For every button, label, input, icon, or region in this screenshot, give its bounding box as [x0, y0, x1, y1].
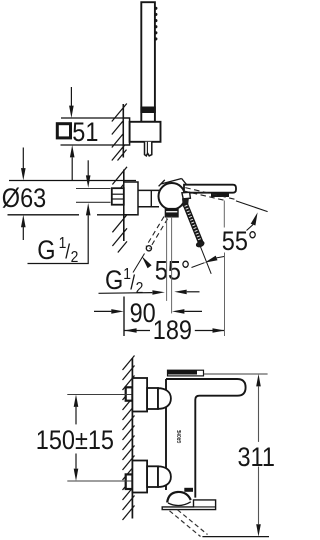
outlet extension lines: [167, 217, 172, 314]
lever base quad: [182, 192, 191, 199]
handle dome: [167, 492, 191, 503]
wall hatch top: [112, 104, 127, 161]
dim 189 text: [153, 315, 192, 345]
thread G12 second left arrow: [174, 290, 199, 295]
dim square51 extension lines: [61, 118, 124, 145]
dim dia63 up arrow: [21, 215, 26, 240]
svg-text:311: 311: [238, 443, 275, 473]
dim square51 down arrow: [69, 87, 74, 118]
thread G12 second text: [105, 265, 143, 297]
lever end cap: [196, 240, 205, 248]
body circle: [159, 183, 186, 210]
dim 150 text: [36, 425, 114, 455]
hose stem: [145, 142, 152, 156]
dim 150 down arrow: [74, 454, 79, 482]
union2 ball: [158, 466, 171, 487]
lever arm: [183, 204, 203, 244]
handle band bottom view: [184, 488, 193, 492]
body and spout bottom view: [166, 379, 246, 498]
dim 311 line and arrows: [256, 374, 261, 537]
handle swing dashed: [146, 217, 168, 251]
holder block: [130, 122, 161, 142]
shank: [138, 190, 159, 206]
wall hatch middle: [112, 167, 127, 253]
spray nozzles: [154, 7, 157, 41]
wall hatch bottom: [123, 356, 135, 521]
handle swing right arc arrow: [192, 256, 225, 268]
top cap plate: [168, 370, 204, 376]
text 55 deg upper: [222, 226, 258, 256]
aerator: [211, 193, 229, 197]
union1 fitting: [126, 387, 133, 400]
dim square51 up arrow: [70, 145, 75, 181]
dim 150 up arrow: [74, 395, 79, 425]
mixer escutcheon: [124, 182, 138, 215]
text 55 deg lower: [155, 256, 191, 286]
dim dia63 text: [2, 183, 46, 213]
spout: [184, 185, 236, 193]
pipe wall fitting: [112, 188, 124, 205]
dim 311 top extension line: [204, 373, 268, 375]
dim 311 bottom extension line: [202, 536, 269, 538]
supply pipe lines: [76, 189, 111, 203]
union1 pipe line: [67, 394, 132, 396]
handle swing dashes bottom: [170, 510, 208, 537]
union1 ball: [158, 388, 171, 409]
holder flange: [123, 118, 129, 145]
thread G12 second right arrow: [99, 290, 165, 295]
hand shower handle: [141, 2, 155, 122]
diverter stub: [165, 208, 178, 217]
dim 90 text: [130, 298, 156, 328]
dim 311 text: [238, 443, 275, 473]
union1 escutcheon: [132, 378, 147, 412]
svg-text:51: 51: [72, 117, 98, 147]
lever axis line: [199, 244, 211, 274]
aerator extension line: [223, 201, 225, 337]
spout swivel leg and arrow: [236, 201, 268, 231]
svg-text:55°: 55°: [155, 256, 191, 286]
shower grip band: [140, 107, 155, 114]
svg-text:Ø63: Ø63: [2, 183, 46, 213]
dim square51 text: [72, 117, 98, 147]
dim dia63 extension lines: [8, 181, 137, 215]
svg-text:55°: 55°: [222, 226, 258, 256]
union2 fitting: [126, 474, 133, 489]
handle plate and tab: [162, 500, 215, 510]
handle lens: [168, 502, 191, 506]
svg-text:2: 2: [136, 279, 144, 297]
svg-text:150±15: 150±15: [36, 425, 114, 455]
svg-text:90: 90: [130, 298, 156, 328]
dim 90 right arrow: [172, 309, 202, 314]
union2 escutcheon: [132, 461, 147, 493]
cartridge cap: [159, 179, 191, 190]
svg-text:GROHE: GROHE: [177, 430, 183, 443]
wall extension line lower: [123, 297, 125, 337]
grohe logo: [177, 430, 183, 443]
svg-text:189: 189: [153, 315, 192, 345]
dim dia63 down arrow: [21, 148, 26, 181]
thread G12 first down arrow: [86, 160, 91, 188]
thread G12 first text: [37, 234, 78, 266]
svg-text:G: G: [37, 235, 55, 265]
union1 nut: [147, 388, 158, 409]
dim 189 line and arrows: [124, 328, 225, 333]
union2 nut: [147, 466, 158, 487]
thread G12 first up arrow leader: [28, 203, 91, 264]
spout swivel dashed rays: [183, 188, 235, 201]
svg-text:G: G: [105, 266, 123, 296]
lever joint: [182, 198, 189, 207]
handle swing left leg and arrow: [133, 254, 152, 273]
dim 90 left arrow: [94, 309, 124, 314]
dim square51 square symbol: [57, 124, 70, 138]
svg-text:2: 2: [71, 248, 79, 266]
union2 pipe line: [67, 480, 132, 482]
